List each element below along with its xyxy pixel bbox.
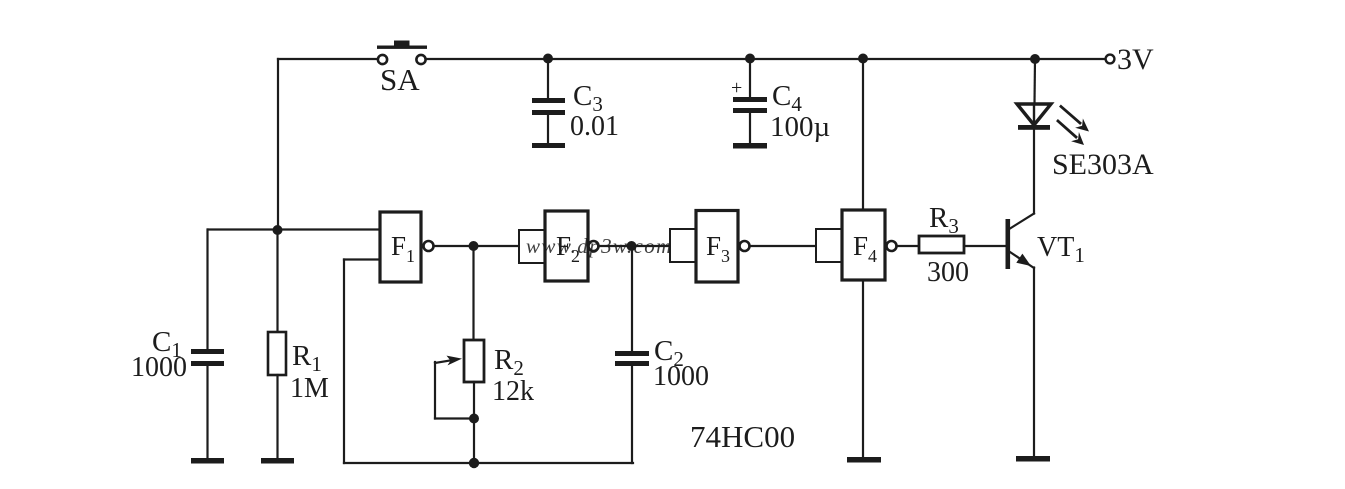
svg-text:R1: R1	[292, 340, 322, 376]
watermark www.dp3w.com	[526, 234, 673, 258]
capacitor C4 (electrolytic)	[733, 59, 767, 149]
wire bottom feedback rail	[344, 462, 633, 464]
svg-text:SA: SA	[380, 62, 420, 97]
wire emitter down to ground	[1033, 268, 1035, 457]
label + polarity of C4	[731, 77, 742, 99]
resistor R1	[268, 230, 286, 458]
node B junction (F1 output)	[469, 241, 479, 251]
label 1M (R1 value)	[290, 373, 329, 404]
svg-text:0.01: 0.01	[570, 111, 619, 142]
transistor VT1	[1006, 214, 1035, 270]
label SE303A	[1052, 148, 1154, 181]
label C1	[152, 326, 182, 362]
label 0.01 (C3 value)	[570, 111, 619, 142]
wire F1 output to F2	[434, 245, 520, 247]
nand gate F3	[670, 211, 750, 283]
junction at C3	[543, 54, 553, 64]
label C3	[573, 80, 603, 116]
svg-text:12k: 12k	[492, 376, 534, 407]
svg-text:3V: 3V	[1117, 43, 1154, 76]
wire F1 lower input	[344, 258, 380, 260]
label F3	[706, 231, 730, 266]
terminal 3V	[1106, 55, 1115, 64]
wire top power rail right segment	[427, 58, 1105, 60]
capacitor C3	[532, 59, 565, 148]
wire F2 output to F3	[599, 245, 671, 247]
node F junction (rail above F4)	[858, 54, 868, 64]
nand gate F2	[519, 211, 599, 281]
wire node B down to R2	[472, 246, 474, 340]
label F2	[556, 231, 580, 266]
ground for C1	[191, 458, 224, 464]
svg-text:1000: 1000	[653, 361, 709, 392]
label 3V	[1117, 43, 1154, 76]
wire left vertical from rail to node A	[277, 59, 279, 230]
wire top power rail left segment	[278, 58, 376, 60]
junction at C4	[745, 54, 755, 64]
label SA	[380, 62, 420, 97]
label C2	[654, 335, 684, 371]
wire F4 down to ground	[862, 280, 864, 457]
wire collector up to LED	[1033, 129, 1035, 214]
node D junction (bottom rail)	[469, 458, 479, 468]
label 1000 (C2 value)	[653, 361, 709, 392]
label R2	[494, 344, 524, 380]
svg-text:SE303A: SE303A	[1052, 148, 1154, 181]
nand gate F4	[816, 210, 897, 280]
svg-text:+: +	[731, 77, 742, 99]
svg-text:1M: 1M	[290, 373, 329, 404]
label 12k (R2 value)	[492, 376, 534, 407]
node A junction	[273, 225, 283, 235]
nand gate F1	[380, 212, 434, 282]
node G junction (rail above LED)	[1030, 54, 1040, 64]
svg-text:VT1: VT1	[1037, 232, 1085, 267]
wire F4 output to R3	[897, 245, 920, 247]
ground for R1	[261, 458, 294, 464]
svg-text:www.dp3w.com: www.dp3w.com	[526, 234, 673, 258]
svg-text:R3: R3	[929, 202, 959, 238]
label VT1	[1037, 232, 1085, 267]
svg-text:100µ: 100µ	[770, 111, 830, 143]
ground for F4	[847, 457, 881, 463]
label F1	[391, 231, 415, 266]
capacitor C2	[615, 246, 649, 463]
svg-text:R2: R2	[494, 344, 524, 380]
wire power rail down to F4	[862, 59, 864, 210]
label 100u (C4 value)	[770, 111, 830, 143]
label R3	[929, 202, 959, 238]
svg-text:300: 300	[927, 257, 969, 288]
node C junction (R2 wiper tap)	[469, 414, 479, 424]
svg-text:74HC00: 74HC00	[690, 419, 795, 454]
label R1	[292, 340, 322, 376]
ground for VT1 emitter	[1016, 456, 1050, 462]
wire feedback left vertical	[343, 260, 345, 464]
resistor R2 (adjustable)	[435, 340, 484, 463]
wire R3 to base of VT1	[964, 245, 1006, 247]
capacitor C1	[191, 230, 224, 459]
label 74HC00	[690, 419, 795, 454]
wire rail down to LED	[1033, 59, 1036, 104]
LED SE303A	[1017, 104, 1089, 145]
label C4	[772, 80, 802, 116]
label 300 (R3 value)	[927, 257, 969, 288]
svg-text:1000: 1000	[131, 352, 187, 383]
wire node A horizontal to F1 input	[208, 228, 380, 230]
label F4	[853, 231, 877, 266]
wire F3 output to F4	[750, 245, 817, 247]
node E junction (F2 output)	[627, 241, 637, 251]
label 1000 (C1 value)	[131, 352, 187, 383]
resistor R3	[919, 236, 964, 253]
switch SA	[377, 41, 427, 65]
